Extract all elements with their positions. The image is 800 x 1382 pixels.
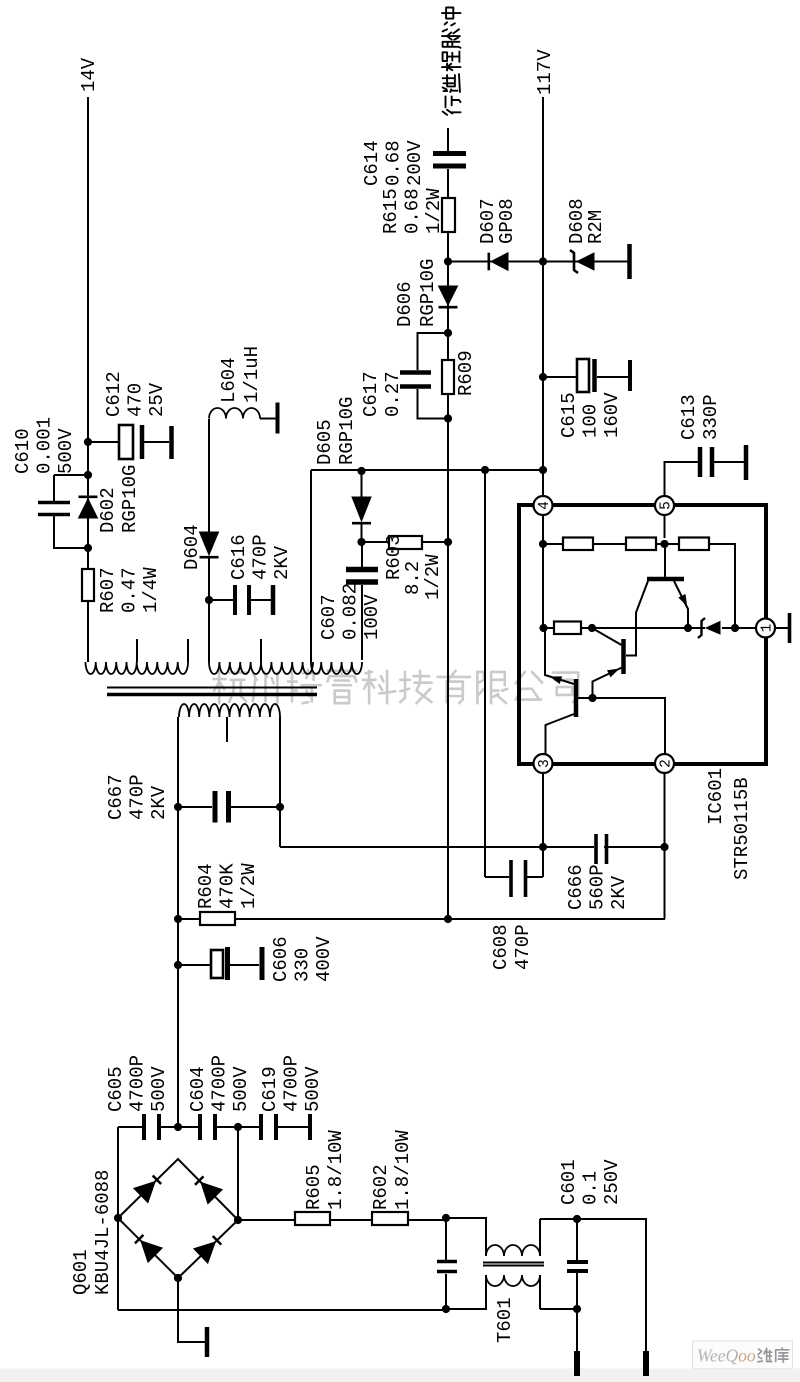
svg-text:WeeQoo: WeeQoo xyxy=(697,1346,756,1366)
svg-text:560P: 560P xyxy=(587,864,609,910)
ground bar pin1 xyxy=(788,613,792,643)
svg-text:470P: 470P xyxy=(250,534,272,580)
resistor R604 feedback xyxy=(200,912,235,925)
svg-text:GP08: GP08 xyxy=(496,198,518,244)
transformer T601 winding A xyxy=(486,1245,540,1256)
ground bar for C616 xyxy=(271,585,276,615)
svg-text:0.1: 0.1 xyxy=(580,1171,602,1205)
IC internal resistor R1 xyxy=(563,538,593,551)
svg-text:L604: L604 xyxy=(218,357,240,403)
svg-text:C617: C617 xyxy=(360,371,382,417)
ground bar xyxy=(205,1327,210,1357)
svg-text:3: 3 xyxy=(537,759,553,768)
node junction dots on 14V rail xyxy=(84,544,92,552)
svg-text:C605: C605 xyxy=(105,1066,127,1112)
capacitor C666 xyxy=(280,846,665,848)
svg-text:C615: C615 xyxy=(558,392,580,438)
IC pin 1 xyxy=(756,619,776,638)
svg-text:117V: 117V xyxy=(534,49,556,95)
ground bar for C606 xyxy=(260,947,265,980)
svg-text:0.001: 0.001 xyxy=(34,417,56,474)
svg-text:R2M: R2M xyxy=(585,210,607,244)
IC internal wire from pin4 xyxy=(542,515,544,544)
capacitor C615 electrolytic on 117V xyxy=(543,376,628,378)
svg-text:T601: T601 xyxy=(494,1297,516,1343)
svg-text:C604: C604 xyxy=(187,1066,209,1112)
wire pin1 external to ground xyxy=(775,627,788,629)
transistor Q2 driver xyxy=(621,639,626,674)
diode D607 between 117V and snubber rail xyxy=(448,261,543,263)
bridge diode bottom-right edge xyxy=(201,1182,222,1203)
IC internal emitter rail to pin1 xyxy=(544,627,757,629)
svg-text:C616: C616 xyxy=(228,534,250,580)
svg-text:470K: 470K xyxy=(217,863,239,909)
IC internal resistor rail xyxy=(543,544,735,628)
svg-text:C606: C606 xyxy=(270,936,292,982)
AC plug pin 2 xyxy=(643,1351,649,1376)
wire AC line with R605 R602 xyxy=(238,1218,486,1256)
wire pin2 external xyxy=(664,773,666,919)
svg-text:R605: R605 xyxy=(303,1164,325,1210)
svg-text:200V: 200V xyxy=(404,140,426,186)
svg-text:D606: D606 xyxy=(394,281,416,327)
IC internal zener diode xyxy=(706,622,720,635)
svg-text:1/2W: 1/2W xyxy=(422,554,444,600)
capacitor C667 xyxy=(178,806,280,808)
transformer core xyxy=(107,693,317,697)
svg-text:100V: 100V xyxy=(361,594,383,640)
resistor R609 on snubber rail xyxy=(442,360,454,394)
svg-text:0.082: 0.082 xyxy=(340,583,362,640)
svg-text:D605: D605 xyxy=(314,419,336,465)
svg-text:500V: 500V xyxy=(230,1066,252,1112)
transformer primary winding W3 xyxy=(311,662,362,674)
wire 117V rail to pin 4 xyxy=(542,97,544,496)
svg-text:4700P: 4700P xyxy=(209,1055,231,1112)
capacitor C614 xyxy=(433,164,466,169)
winding W4 tap stub xyxy=(226,717,228,742)
bottom gray strip xyxy=(0,1369,800,1382)
resistor R607 xyxy=(82,569,94,601)
svg-text:Q601: Q601 xyxy=(70,1249,92,1295)
svg-text:C666: C666 xyxy=(565,864,587,910)
capacitor C616 to ground xyxy=(209,599,271,601)
svg-text:470P: 470P xyxy=(127,774,149,820)
winding W1 tap stubs xyxy=(137,639,188,662)
capacitor C607 xyxy=(361,542,363,660)
svg-text:D604: D604 xyxy=(181,524,203,570)
svg-text:470P: 470P xyxy=(512,924,534,970)
capacitor C619 xyxy=(259,1114,263,1140)
svg-text:1/4W: 1/4W xyxy=(140,567,162,613)
ground bar for D608 xyxy=(627,244,632,279)
transistor Q3 xyxy=(574,679,579,717)
svg-text:1: 1 xyxy=(760,624,776,633)
wire pin3 external xyxy=(542,773,544,877)
transformer primary winding W2 xyxy=(209,662,313,674)
bridge rectifier Q601 diamond xyxy=(118,1159,238,1278)
ground stub from bridge negative corner xyxy=(178,1278,205,1342)
svg-text:R615: R615 xyxy=(380,188,402,234)
label flyback pulse text xyxy=(443,97,461,115)
capacitor C608 xyxy=(485,470,543,877)
node dots on snubber rail xyxy=(444,329,452,337)
svg-text:330: 330 xyxy=(292,948,314,982)
svg-text:0.47: 0.47 xyxy=(119,567,141,613)
svg-text:0.68: 0.68 xyxy=(383,140,405,186)
capacitor C605 xyxy=(142,1114,146,1140)
svg-text:STR50115B: STR50115B xyxy=(731,777,753,880)
wire AC line 2 down left side xyxy=(118,1218,486,1310)
node 14V output rail xyxy=(87,97,89,662)
capacitor C601 xyxy=(576,1219,578,1309)
svg-text:C667: C667 xyxy=(105,774,127,820)
IC internal wire y543 xyxy=(542,544,544,628)
svg-text:C612: C612 xyxy=(103,371,125,417)
AC plug pin 1 xyxy=(576,1309,578,1351)
svg-text:R607: R607 xyxy=(97,567,119,613)
svg-text:C614: C614 xyxy=(361,140,383,186)
svg-text:2KV: 2KV xyxy=(608,875,630,910)
svg-text:1/2W: 1/2W xyxy=(423,188,445,234)
svg-text:4: 4 xyxy=(537,501,553,510)
wire secondary output rail xyxy=(177,717,179,1127)
IC internal resistor R3 xyxy=(679,538,709,551)
terminal bar for L604 xyxy=(276,403,280,434)
svg-text:D602: D602 xyxy=(97,487,119,533)
IC pin 4 xyxy=(534,496,554,515)
svg-text:500V: 500V xyxy=(55,428,77,474)
winding W2 tap stub xyxy=(260,639,262,662)
resistor R602 xyxy=(372,1212,408,1225)
svg-text:4700P: 4700P xyxy=(127,1055,149,1112)
capacitor C613 xyxy=(698,447,703,477)
IC internal wire pin5 to rail xyxy=(664,515,666,538)
resistor R605 xyxy=(295,1212,330,1225)
inductor L604 xyxy=(209,408,260,419)
IC internal resistor R4 xyxy=(554,622,581,635)
svg-text:1.8/10W: 1.8/10W xyxy=(392,1130,414,1210)
svg-text:R602: R602 xyxy=(370,1164,392,1210)
svg-text:KBU4JL-6088: KBU4JL-6088 xyxy=(92,1170,114,1295)
svg-text:C613: C613 xyxy=(678,394,700,440)
diode D606 on snubber rail xyxy=(439,286,458,305)
capacitor C610 branch xyxy=(54,475,88,548)
terminal bar cap row xyxy=(308,1114,312,1140)
capacitor line filter X xyxy=(445,1218,447,1309)
bridge diode bottom-left edge xyxy=(194,1242,215,1263)
svg-text:2: 2 xyxy=(659,759,675,768)
wire filter capacitor row xyxy=(118,1126,308,1128)
transformer T601 core xyxy=(483,1265,544,1267)
wire winding W2 top to D604 and L604 xyxy=(208,419,210,662)
resistor R603 xyxy=(389,536,422,549)
transformer secondary winding W4 xyxy=(179,704,280,717)
watermark hangzhou jiangrui technology co ltd xyxy=(213,670,246,704)
svg-text:0.27: 0.27 xyxy=(382,371,404,417)
IC pin 2 xyxy=(655,754,675,773)
svg-text:RGP10G: RGP10G xyxy=(336,397,358,465)
svg-text:500V: 500V xyxy=(148,1066,170,1112)
svg-text:100: 100 xyxy=(580,404,602,438)
capacitor C612 electrolytic to ground xyxy=(88,441,169,443)
bridge diode top-right edge xyxy=(134,1181,155,1202)
svg-text:2KV: 2KV xyxy=(148,785,170,820)
svg-text:C619: C619 xyxy=(259,1066,281,1112)
diode D604 xyxy=(200,532,219,555)
svg-text:25V: 25V xyxy=(146,382,168,417)
svg-text:330P: 330P xyxy=(700,394,722,440)
svg-text:4700P: 4700P xyxy=(281,1055,303,1112)
svg-text:IC601: IC601 xyxy=(705,768,727,825)
svg-text:RGP10G: RGP10G xyxy=(417,259,439,327)
IC601 box xyxy=(519,505,766,764)
capacitor C617 parallel branch xyxy=(418,333,449,419)
svg-text:C601: C601 xyxy=(558,1159,580,1205)
svg-text:1.8/10W: 1.8/10W xyxy=(325,1130,347,1210)
ground bar for C613 xyxy=(744,445,749,480)
bridge diode top-left edge xyxy=(141,1241,162,1262)
wire bridge links to cap row xyxy=(118,1127,238,1218)
svg-text:400V: 400V xyxy=(313,936,335,982)
wire snubber rail xyxy=(447,128,449,920)
svg-text:250V: 250V xyxy=(601,1159,623,1205)
svg-text:R609: R609 xyxy=(455,350,477,396)
diode D602 on 14V rail xyxy=(79,499,98,518)
capacitor C606 electrolytic to ground xyxy=(178,964,259,966)
node dots on 117V rail xyxy=(539,466,547,474)
svg-text:2KV: 2KV xyxy=(271,545,293,580)
capacitor C604 xyxy=(198,1114,202,1140)
wire pin5 to C613 xyxy=(665,462,699,496)
transformer T601 winding B xyxy=(486,1275,540,1286)
svg-text:1/2W: 1/2W xyxy=(238,863,260,909)
svg-text:0.68: 0.68 xyxy=(402,188,424,234)
resistor R615 xyxy=(442,198,455,232)
wire R604 line down to pin2 wire xyxy=(178,918,665,920)
WeeQoo weiku logo xyxy=(693,1341,793,1369)
svg-text:8.2: 8.2 xyxy=(402,561,424,595)
svg-text:C607: C607 xyxy=(318,594,340,640)
IC internal resistor R2 xyxy=(626,538,656,551)
svg-text:R604: R604 xyxy=(195,863,217,909)
IC pin 5 xyxy=(655,496,675,515)
ground bar for C615 xyxy=(628,360,632,391)
IC pin 3 xyxy=(534,754,554,773)
transistor Q1 output xyxy=(647,577,684,582)
diode D608 zener to ground xyxy=(543,261,628,263)
svg-text:C610: C610 xyxy=(12,428,34,474)
svg-text:C608: C608 xyxy=(490,924,512,970)
svg-text:1/1uH: 1/1uH xyxy=(241,346,263,403)
wire from winding W3 to 117V junction xyxy=(311,470,543,662)
svg-text:RGP10G: RGP10G xyxy=(119,465,141,533)
svg-text:160V: 160V xyxy=(601,392,623,438)
svg-text:5: 5 xyxy=(659,501,675,510)
transformer T602 primary winding W1 xyxy=(86,662,189,674)
svg-text:470: 470 xyxy=(125,383,147,417)
diode D605 xyxy=(361,470,363,542)
svg-text:14V: 14V xyxy=(78,57,100,92)
svg-text:500V: 500V xyxy=(302,1066,324,1112)
wire winding W4 bottom to feedback node xyxy=(279,717,281,847)
